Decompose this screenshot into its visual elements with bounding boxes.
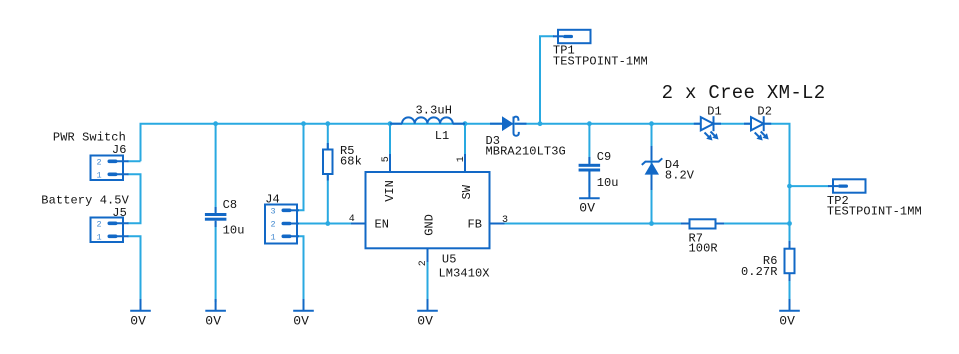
label R7 (689, 231, 704, 245)
label 0V gnd3 (293, 314, 309, 329)
svg-text:C8: C8 (223, 198, 238, 212)
pin 2 GND stub (427, 248, 429, 262)
wire IC GND pin to ground (427, 260, 429, 302)
LED D1 (694, 116, 721, 140)
label U5 (442, 253, 457, 267)
label D1 (707, 105, 722, 119)
svg-text:EN: EN (375, 217, 389, 231)
label 8.2V (665, 169, 695, 183)
node EN junction (325, 221, 330, 226)
wire SW pin vertical (464, 124, 466, 155)
pin name SW (460, 184, 474, 199)
label 0V gnd1 (130, 314, 146, 329)
ground J4 (293, 299, 314, 311)
connector J5 (91, 218, 129, 243)
label PWR Switch (53, 131, 126, 145)
wire TP2 branch (790, 185, 830, 187)
svg-text:2: 2 (271, 220, 276, 230)
pin number 3 (502, 215, 508, 226)
label 100R (689, 242, 718, 256)
wire TP1 branch (540, 36, 554, 123)
pin number 1 (456, 156, 467, 162)
ground U5 (417, 299, 438, 311)
svg-text:5: 5 (381, 156, 392, 162)
label TP1 (553, 44, 575, 58)
svg-text:VIN: VIN (383, 180, 397, 202)
svg-text:L1: L1 (435, 129, 450, 143)
label 68k (340, 155, 362, 169)
svg-text:J6: J6 (112, 143, 127, 157)
resistor R7 (681, 219, 724, 228)
svg-text:1: 1 (271, 232, 276, 242)
wire J4 pin1 to ground (298, 236, 304, 302)
svg-text:10u: 10u (597, 176, 619, 190)
label J5 (112, 206, 127, 220)
ground C8 (205, 299, 226, 311)
resistor R5 (323, 143, 333, 181)
wire J6 pin2 to rail (128, 160, 141, 162)
label D2 (757, 105, 772, 119)
pin numbers J4 (271, 206, 276, 242)
label 0V C9 (579, 201, 595, 216)
LED D2 (744, 116, 771, 140)
svg-text:1: 1 (456, 156, 467, 162)
wire D4 vertical (651, 124, 653, 224)
connector J6 (91, 156, 129, 181)
label J4 (265, 193, 280, 207)
svg-text:2: 2 (418, 260, 429, 266)
svg-text:FB: FB (468, 217, 482, 231)
pin name EN (375, 217, 389, 231)
svg-text:3.3uH: 3.3uH (416, 104, 453, 118)
svg-text:0V: 0V (205, 314, 221, 329)
svg-text:MBRA210LT3G: MBRA210LT3G (486, 145, 566, 159)
svg-text:0V: 0V (417, 314, 433, 329)
svg-text:0V: 0V (779, 314, 795, 329)
label 0.27R (741, 265, 778, 279)
label C8 (223, 198, 238, 212)
label 0V gnd4 (417, 314, 433, 329)
pin number 2 (418, 260, 429, 266)
pin numbers J5 (97, 219, 102, 242)
wire C8 upper (215, 124, 217, 212)
label 2 x Cree XM-L2 (662, 82, 826, 104)
wire top rail right of D2 down to ground (764, 124, 790, 302)
label C9 (597, 150, 612, 164)
svg-text:3: 3 (271, 206, 276, 216)
resistor R6 (785, 241, 795, 281)
connector J4 (265, 205, 299, 244)
svg-text:8.2V: 8.2V (665, 169, 695, 183)
pin 1 SW stub (464, 154, 466, 172)
ground R6 (779, 299, 800, 311)
ground J5 net (130, 299, 151, 311)
wire J4 pin3 to rail (298, 124, 304, 211)
label 3.3uH (416, 104, 453, 118)
svg-text:1: 1 (97, 232, 102, 242)
svg-text:2: 2 (97, 157, 102, 167)
node D4 anode junction (649, 221, 654, 226)
label MBRA210LT3G (486, 145, 566, 159)
label LM3410X (439, 267, 490, 281)
label TESTPOINT-1MM TP1 (553, 54, 648, 68)
svg-text:1: 1 (97, 170, 102, 180)
pin name GND (423, 214, 437, 236)
svg-text:TESTPOINT-1MM: TESTPOINT-1MM (827, 205, 922, 219)
diode D4 zener (642, 146, 663, 190)
op-amp U5 LM3410X body (366, 172, 490, 248)
wire J5 pin1 to ground (128, 236, 141, 302)
capacitor C8 (205, 207, 227, 227)
svg-text:D1: D1 (707, 105, 722, 119)
svg-text:0V: 0V (130, 314, 146, 329)
svg-text:2 x Cree XM-L2: 2 x Cree XM-L2 (662, 82, 826, 104)
node TP2 junction (787, 184, 792, 189)
label 0V gnd5 (779, 314, 795, 329)
capacitor C9 (579, 157, 601, 198)
label 10u (223, 224, 245, 238)
pin 5 VIN stub (389, 154, 391, 172)
svg-text:4: 4 (349, 214, 355, 225)
testpoint TP1 (553, 30, 591, 43)
ground C9 (579, 197, 600, 199)
label 10u C9 (597, 176, 619, 190)
svg-text:3: 3 (502, 215, 508, 226)
label 0V gnd2 (205, 314, 221, 329)
svg-text:68k: 68k (340, 155, 362, 169)
svg-text:0V: 0V (293, 314, 309, 329)
wire R5 branch vertical (327, 124, 329, 224)
wire VIN pin vertical (389, 124, 391, 155)
testpoint TP2 (828, 179, 866, 192)
wire C9 lower to ground (588, 172, 590, 193)
svg-text:J4: J4 (265, 193, 280, 207)
node FB right junction (787, 221, 792, 226)
wire C8 lower to ground (215, 222, 217, 302)
pin number 4 (349, 214, 355, 225)
wire J6 pin1 to J5 pin2 (128, 174, 141, 223)
svg-text:2: 2 (97, 219, 102, 229)
label L1 (435, 129, 450, 143)
label R6 (763, 254, 778, 268)
label TP2 (827, 194, 849, 208)
pin name VIN (383, 180, 397, 202)
label TESTPOINT-1MM TP2 (827, 205, 922, 219)
diode D3 schottky (490, 116, 527, 135)
svg-text:LM3410X: LM3410X (439, 267, 490, 281)
pin name FB (468, 217, 482, 231)
wire J4 pin2 to EN net (298, 223, 352, 225)
svg-text:0.27R: 0.27R (741, 265, 778, 279)
svg-text:TESTPOINT-1MM: TESTPOINT-1MM (553, 54, 648, 68)
pin 3 FB stub (490, 223, 505, 225)
pin number 5 (381, 156, 392, 162)
svg-text:D2: D2 (757, 105, 772, 119)
pin numbers J6 (97, 157, 102, 180)
wire top rail between D1 and D2 (714, 123, 752, 125)
inductor L1 (390, 117, 465, 123)
label J6 (112, 143, 127, 157)
svg-text:C9: C9 (597, 150, 612, 164)
svg-text:GND: GND (423, 214, 437, 236)
label D4 (665, 158, 680, 172)
wire top rail left (141, 124, 701, 162)
svg-text:10u: 10u (223, 224, 245, 238)
label R5 (340, 144, 355, 158)
label D3 (486, 134, 501, 148)
label Battery 4.5V (41, 193, 129, 207)
svg-text:J5: J5 (112, 206, 127, 220)
svg-text:U5: U5 (442, 253, 457, 267)
svg-text:0V: 0V (579, 201, 595, 216)
pin 4 EN stub (351, 223, 366, 225)
junction dots on rail (213, 121, 654, 126)
svg-text:SW: SW (460, 184, 474, 199)
wire FB net to R7 and R6 (504, 223, 790, 225)
svg-text:100R: 100R (689, 242, 718, 256)
wire C9 upper (588, 124, 590, 163)
